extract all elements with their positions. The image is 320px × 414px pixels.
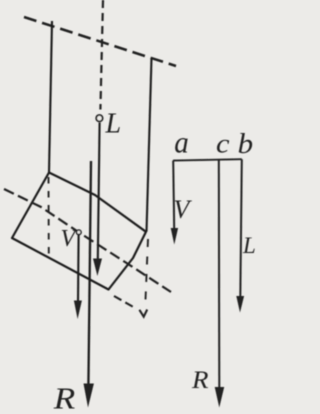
force V arrow below a: [173, 161, 174, 229]
dashed vertical under left box corner: [48, 177, 50, 257]
tilted box (car): [12, 173, 146, 290]
force V arrow from circle V down: [77, 235, 80, 302]
right suspension line: [147, 58, 152, 232]
node L circle: [96, 115, 102, 121]
node V circle: [77, 230, 82, 235]
resultant R arrow below c: [218, 160, 221, 388]
horizontal bar a-c-b: [173, 159, 242, 160]
dashed waterline diagonal: [4, 189, 171, 292]
svg-text:R: R: [191, 367, 209, 394]
svg-text:R: R: [53, 381, 76, 414]
force L arrow below b: [240, 159, 242, 297]
svg-text:V: V: [61, 226, 78, 252]
left suspension line: [49, 21, 52, 173]
dashed tilted balloon-axis line: [24, 17, 176, 66]
dashed vertical centre line: [100, 0, 103, 110]
short dashed diagonal below box corner: [114, 296, 136, 309]
svg-text:c: c: [216, 129, 230, 159]
svg-text:a: a: [174, 124, 189, 159]
resultant R arrow (long): [88, 161, 91, 385]
svg-text:L: L: [242, 233, 256, 258]
corner dash (checkmark) at its bottom: [139, 310, 147, 317]
force L arrow from circle L down: [98, 123, 100, 261]
svg-text:b: b: [238, 129, 254, 160]
svg-text:L: L: [105, 109, 122, 140]
dashed vertical under right box corner: [145, 239, 148, 307]
